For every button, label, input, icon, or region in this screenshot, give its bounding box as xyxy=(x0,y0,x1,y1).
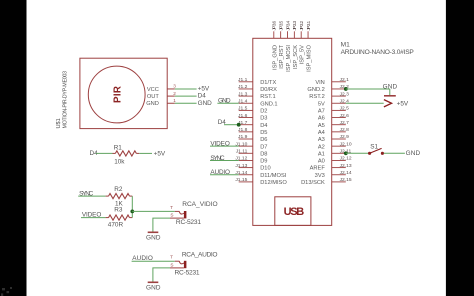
PIR pin 3 stub xyxy=(167,88,175,90)
svg-text:A7: A7 xyxy=(318,109,325,115)
svg-text:2: 2 xyxy=(173,91,176,96)
svg-text:RST.2: RST.2 xyxy=(309,94,325,100)
wire D4 label to J1.7 xyxy=(224,124,239,126)
svg-text:RC-5231: RC-5231 xyxy=(176,219,201,226)
svg-text:470R: 470R xyxy=(108,222,124,229)
svg-text:GND.2: GND.2 xyxy=(307,87,324,93)
pin J1.9 stub xyxy=(239,138,253,140)
svg-text:D13/SCK: D13/SCK xyxy=(301,180,325,186)
pin J1.1 stub xyxy=(239,81,253,83)
svg-text:ISP_SCK: ISP_SCK xyxy=(293,45,299,69)
svg-text:GND.1: GND.1 xyxy=(260,101,277,107)
svg-text:J1.1: J1.1 xyxy=(238,77,248,83)
wire J2.2 to GND symbol xyxy=(346,88,390,90)
svg-text:RC-5231: RC-5231 xyxy=(175,270,200,277)
svg-text:VIN: VIN xyxy=(315,80,324,86)
svg-text:J1.2: J1.2 xyxy=(238,84,248,90)
svg-text:MOTION-PIR-DYP-ME003: MOTION-PIR-DYP-ME003 xyxy=(63,71,69,129)
junction at J1.7 xyxy=(237,123,241,127)
svg-text:JP3.4: JP3.4 xyxy=(285,21,291,31)
pin J1.3 stub xyxy=(239,95,253,97)
svg-text:GND: GND xyxy=(146,101,159,107)
svg-text:A5: A5 xyxy=(318,123,325,129)
wire VIDEO to R3 xyxy=(81,217,106,219)
pin J1.10 stub xyxy=(239,145,253,147)
ground symbol bar (J2.2) xyxy=(384,95,396,97)
pin J2.8 stub xyxy=(332,131,346,133)
svg-text:GND: GND xyxy=(198,100,213,107)
svg-text:S1: S1 xyxy=(370,144,378,151)
RCA_AUDIO tip pin xyxy=(175,260,180,262)
pin J2.7 stub xyxy=(332,124,346,126)
wire video node to RCA_VIDIO tip xyxy=(132,210,175,212)
svg-text:D2: D2 xyxy=(260,109,267,115)
wire GND label to J1.4 xyxy=(217,102,238,104)
svg-text:J1.5: J1.5 xyxy=(238,106,248,112)
resistor R1 xyxy=(113,151,140,156)
svg-text:A0: A0 xyxy=(318,159,325,165)
svg-text:GND: GND xyxy=(406,150,421,157)
svg-text:PIR: PIR xyxy=(113,86,124,103)
RCA_VIDIO sleeve pin xyxy=(170,217,184,219)
svg-text:D0/RX: D0/RX xyxy=(260,87,277,93)
pin J2.1 stub xyxy=(332,81,346,83)
svg-text:+5V: +5V xyxy=(198,86,210,93)
wire SYNC to R2 xyxy=(78,195,105,197)
svg-text:J2.12: J2.12 xyxy=(340,156,352,162)
svg-text:R1: R1 xyxy=(114,144,123,151)
wire R1 to +5V xyxy=(139,152,152,154)
svg-text:JP3.3: JP3.3 xyxy=(292,21,298,31)
USB box xyxy=(275,197,311,226)
svg-text:RCA_VIDIO: RCA_VIDIO xyxy=(182,201,217,208)
wire RCA_AUDIO sleeve to ground xyxy=(153,268,170,282)
pin J1.11 stub xyxy=(239,152,253,154)
RCA_AUDIO sleeve pin xyxy=(170,267,184,269)
svg-text:VCC: VCC xyxy=(147,87,159,93)
wire J2.4 to +5V arrow xyxy=(346,102,384,104)
ground symbol (video) xyxy=(148,231,159,233)
pin J2.11 stub xyxy=(332,152,346,154)
wire PIR pin 3 to label +5V xyxy=(175,88,197,90)
pin J2.2 stub xyxy=(332,88,346,90)
svg-text:J2.7: J2.7 xyxy=(340,120,350,126)
pin J1.4 stub xyxy=(239,102,253,104)
svg-text:D9: D9 xyxy=(260,159,267,165)
svg-text:J1.4: J1.4 xyxy=(238,98,248,104)
right black letterbox bar xyxy=(446,0,474,296)
svg-text:J1.11: J1.11 xyxy=(236,149,248,155)
wire J2.11 to switch S1 xyxy=(346,152,369,154)
ground symbol (audio) xyxy=(148,281,159,283)
pin J2.15 stub xyxy=(332,181,346,183)
pin JP3.3 stub xyxy=(293,31,295,38)
svg-text:J1.13: J1.13 xyxy=(235,163,247,169)
pin J1.14 stub xyxy=(239,174,253,176)
svg-text:T: T xyxy=(170,255,173,260)
pin J1.13 stub xyxy=(239,167,253,169)
svg-text:J2.10: J2.10 xyxy=(340,141,352,147)
svg-text:J2.14: J2.14 xyxy=(340,170,352,176)
svg-text:JP3.6: JP3.6 xyxy=(272,21,278,31)
svg-text:5V: 5V xyxy=(318,101,325,107)
svg-text:S: S xyxy=(170,213,173,218)
wire SYNC label to J1.12 xyxy=(210,159,239,161)
svg-text:JP3.2: JP3.2 xyxy=(299,21,305,31)
wire RCA_VIDIO sleeve to ground xyxy=(153,218,170,232)
svg-text:D12/MISO: D12/MISO xyxy=(260,180,287,186)
svg-text:D8: D8 xyxy=(260,151,267,157)
svg-text:JP3.1: JP3.1 xyxy=(306,21,312,31)
wire VIDEO label to J1.10 xyxy=(210,145,239,147)
pin J2.6 stub xyxy=(332,117,346,119)
wire D4 to R1 xyxy=(96,152,113,154)
svg-text:D6: D6 xyxy=(260,137,267,143)
svg-text:+5V: +5V xyxy=(154,150,166,157)
pin J1.8 stub xyxy=(239,131,253,133)
+5V supply arrow xyxy=(384,100,392,107)
wire R2/R3 join vertical xyxy=(131,196,133,218)
PIR pin 1 stub xyxy=(167,102,175,104)
wire S1 to GND label xyxy=(384,152,405,154)
pin JP3.1 stub xyxy=(307,31,309,38)
wire AUDIO label to J1.14 xyxy=(210,174,239,176)
svg-text:GND: GND xyxy=(146,235,161,242)
svg-text:D7: D7 xyxy=(260,144,267,150)
pin J1.12 stub xyxy=(239,159,253,161)
svg-text:J1.6: J1.6 xyxy=(238,113,248,119)
svg-text:ISP_MOSI: ISP_MOSI xyxy=(286,45,292,72)
svg-text:OUT: OUT xyxy=(147,94,160,100)
svg-text:J2.15: J2.15 xyxy=(340,177,352,183)
svg-text:D5: D5 xyxy=(260,130,267,136)
pin J1.7 stub xyxy=(239,124,253,126)
pin J1.5 stub xyxy=(239,109,253,111)
wire PIR pin 1 to label GND xyxy=(175,102,197,104)
svg-text:U$1: U$1 xyxy=(56,118,62,128)
svg-text:D1/TX: D1/TX xyxy=(260,80,276,86)
RCA_VIDIO tip pin xyxy=(175,210,180,212)
svg-text:ISP_GND: ISP_GND xyxy=(272,45,278,70)
pin JP3.4 stub xyxy=(287,31,289,38)
Arduino Nano M1 body xyxy=(253,38,332,225)
pin J1.6 stub xyxy=(239,117,253,119)
svg-text:M1: M1 xyxy=(341,41,350,48)
svg-text:USB: USB xyxy=(284,206,305,218)
svg-text:10k: 10k xyxy=(114,158,125,165)
svg-text:A2: A2 xyxy=(318,144,325,150)
svg-text:J2.13: J2.13 xyxy=(340,163,352,169)
svg-text:ISP_MISO: ISP_MISO xyxy=(307,44,313,71)
svg-text:D10: D10 xyxy=(260,166,270,172)
svg-text:RCA_AUDIO: RCA_AUDIO xyxy=(182,251,218,258)
svg-text:J1.9: J1.9 xyxy=(238,134,248,140)
pin JP3.2 stub xyxy=(300,31,302,38)
junction at J2.11 xyxy=(344,151,348,155)
switch S1 xyxy=(368,148,384,155)
svg-text:GND: GND xyxy=(146,284,161,291)
svg-text:AREF: AREF xyxy=(310,166,326,172)
svg-text:ISP_RST: ISP_RST xyxy=(279,44,285,68)
pin JP3.5 stub xyxy=(280,31,282,38)
svg-text:JP3.5: JP3.5 xyxy=(279,21,285,31)
pin J1.15 stub xyxy=(239,181,253,183)
svg-text:R2: R2 xyxy=(114,186,123,193)
svg-text:J2.8: J2.8 xyxy=(340,127,350,133)
pin J2.3 stub xyxy=(332,95,346,97)
resistor R2 xyxy=(106,194,133,199)
junction at J2.2 xyxy=(344,87,348,91)
ground symbol stem (J2.2) xyxy=(389,89,391,95)
svg-text:D3: D3 xyxy=(260,116,267,122)
svg-text:D4: D4 xyxy=(260,123,267,129)
svg-text:A3: A3 xyxy=(318,137,325,143)
RCA_AUDIO body bar xyxy=(184,261,187,268)
pin J2.14 stub xyxy=(332,174,346,176)
wire PIR pin 2 to label D4 xyxy=(175,95,197,97)
svg-text:J2.3: J2.3 xyxy=(340,91,350,97)
svg-text:J1.8: J1.8 xyxy=(238,127,248,133)
PIR pin 2 stub xyxy=(167,95,175,97)
pin JP3.6 stub xyxy=(273,31,275,38)
corner artifact xyxy=(1,287,12,296)
svg-text:RST.1: RST.1 xyxy=(260,94,276,100)
svg-text:1: 1 xyxy=(173,98,176,103)
junction at video node xyxy=(130,210,134,214)
svg-text:R3: R3 xyxy=(114,206,123,213)
svg-text:A1: A1 xyxy=(318,151,325,157)
svg-text:+5V: +5V xyxy=(397,100,409,107)
left black letterbox bar xyxy=(0,0,27,296)
svg-text:J2.5: J2.5 xyxy=(340,106,350,112)
PIR sensor U$1 body xyxy=(80,58,167,128)
svg-text:S: S xyxy=(170,263,173,268)
svg-text:J1.15: J1.15 xyxy=(235,177,247,183)
svg-text:ISP_5V: ISP_5V xyxy=(300,45,306,64)
svg-text:ARDUINO-NANO-3.0#ISP: ARDUINO-NANO-3.0#ISP xyxy=(341,49,415,56)
svg-text:3V3: 3V3 xyxy=(315,173,325,179)
wire AUDIO to RCA_AUDIO tip xyxy=(132,260,175,262)
pin J1.2 stub xyxy=(239,88,253,90)
svg-text:A6: A6 xyxy=(318,116,325,122)
pin J2.13 stub xyxy=(332,167,346,169)
svg-text:J2.9: J2.9 xyxy=(340,134,350,140)
RCA_VIDIO body bar xyxy=(184,211,187,218)
pin J2.5 stub xyxy=(332,109,346,111)
pin J2.4 stub xyxy=(332,102,346,104)
svg-text:J1.3: J1.3 xyxy=(238,91,248,97)
svg-text:3: 3 xyxy=(173,84,176,89)
pin J2.10 stub xyxy=(332,145,346,147)
svg-text:J2.6: J2.6 xyxy=(340,113,350,119)
svg-text:D11/MOSI: D11/MOSI xyxy=(260,173,287,179)
svg-text:J2.1: J2.1 xyxy=(340,77,350,83)
pin J2.9 stub xyxy=(332,138,346,140)
pin J2.12 stub xyxy=(332,159,346,161)
svg-text:A4: A4 xyxy=(318,130,325,136)
svg-text:T: T xyxy=(170,205,173,210)
svg-text:D4: D4 xyxy=(198,93,207,100)
resistor R3 xyxy=(106,215,133,220)
